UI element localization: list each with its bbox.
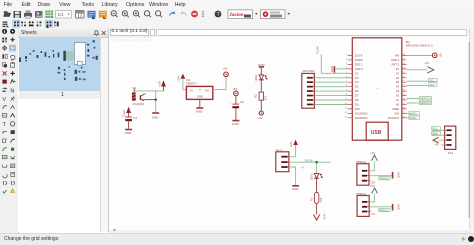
svg-text:A5: A5 [396, 80, 400, 84]
LED1 [314, 174, 319, 179]
svg-text:GND: GND [152, 116, 160, 120]
svg-text:1: 1 [346, 54, 348, 56]
faint marks top-left of canvas [111, 36, 151, 38]
net SDA [407, 85, 429, 87]
PRES2 pin1 to +5V chevron up [369, 161, 374, 171]
toolbar: dots [202, 11, 203, 12]
svg-text:3V3: 3V3 [394, 111, 399, 115]
PRES1 pin3 label [369, 211, 371, 213]
wire VO to +5V circle [213, 77, 226, 90]
ground GND (C1) [125, 129, 132, 131]
svg-text:OC3Q32: OC3Q32 [132, 102, 144, 106]
junction dot [155, 99, 157, 101]
net SERVO2 [407, 98, 420, 100]
svg-text:D2: D2 [355, 71, 359, 75]
svg-text:D5: D5 [355, 85, 359, 89]
row20: check / warning [3, 190, 7, 193]
wire: emitter to junction [144, 99, 156, 101]
LED2 [259, 75, 264, 80]
svg-text:KEYPAD: KEYPAD [303, 69, 316, 73]
scroll corner dot [113, 229, 116, 232]
svg-text:SCL: SCL [432, 127, 438, 131]
svg-text:+5V: +5V [223, 67, 228, 71]
thumbnail mini schematic [19, 38, 100, 91]
toolbar: ad button 2 [261, 10, 286, 19]
svg-text:D6: D6 [355, 89, 359, 93]
svg-text:3: 3 [346, 63, 348, 65]
ground (GND1 row, rotated) [333, 66, 335, 73]
svg-text:SL 1: SL 1 [276, 148, 282, 152]
PRES1 pin leads [367, 202, 369, 212]
arduino left pin labels [355, 54, 368, 120]
svg-text:GND: GND [197, 95, 203, 99]
keypad block [63, 51, 66, 61]
svg-text:GND: GND [196, 109, 204, 113]
toolbar: print icon [24, 13, 32, 17]
SL2 pin leads [445, 130, 447, 145]
frame right border line [468, 42, 470, 218]
part origin cross [301, 166, 304, 169]
svg-text:D10: D10 [355, 107, 360, 111]
canvas top coordinate bar [109, 28, 474, 38]
row16: label / attribute [2, 155, 7, 158]
toolbar: stop icon [191, 11, 198, 18]
svg-text:FLOW: FLOW [316, 46, 320, 54]
svg-text:AREF: AREF [392, 107, 400, 111]
row8: gateswap / name [3, 88, 7, 92]
keypad pins [307, 77, 313, 105]
svg-text:5V: 5V [396, 67, 399, 71]
status bar [0, 233, 474, 245]
toolbar: help [215, 11, 222, 18]
menu bar [0, 0, 474, 11]
capacitor C2 [232, 103, 239, 105]
resistor R1 [314, 193, 318, 204]
capacitor C1 [125, 116, 132, 118]
row11: invoke / wire [2, 113, 6, 117]
svg-text:D3: D3 [355, 76, 359, 80]
sheets header pin + close icons [93, 30, 107, 37]
svg-text:PRES1: PRES1 [380, 208, 389, 212]
row10: miter / split [3, 106, 7, 109]
toolbar: sheet combo [56, 11, 72, 19]
toolbar: zoom fit [111, 11, 162, 18]
svg-text:+5V: +5V [424, 61, 429, 65]
svg-text:2: 2 [346, 58, 348, 60]
svg-text:A0: A0 [396, 103, 400, 107]
svg-text:D1/TX: D1/TX [355, 54, 363, 58]
svg-text:15: 15 [345, 116, 348, 118]
svg-text:10k: 10k [319, 197, 323, 202]
supply +12V arrow (top of net) [161, 80, 166, 86]
svg-text:SDA: SDA [429, 83, 435, 87]
svg-text:VI: VI [190, 89, 193, 93]
svg-text:SERVO2: SERVO2 [420, 97, 431, 101]
wire: main +12V net horizontal [134, 90, 163, 92]
row3: move / group(selected) [2, 46, 7, 51]
svg-text:RST 2: RST 2 [392, 62, 400, 66]
svg-text:+5V: +5V [232, 87, 237, 91]
supply +12V arrow (SL1) [293, 140, 298, 145]
svg-text:A2: A2 [396, 94, 400, 98]
svg-text:D9: D9 [355, 103, 359, 107]
PRES1 pin1 to +5V chevron up [369, 194, 374, 202]
svg-text:A6: A6 [396, 76, 400, 80]
arduino pin numbers (outside stubs) [345, 54, 348, 118]
supply +5V circle (right of arduino) [432, 53, 437, 58]
svg-text:+5V: +5V [257, 116, 262, 120]
arduino white box [74, 43, 85, 65]
net SERVO1 [407, 102, 420, 104]
sheets panel [18, 28, 110, 232]
row14: polygon / bus [3, 139, 7, 142]
svg-text:SCL: SCL [429, 78, 435, 82]
supply circle +5V (bottom of LED2 column) [259, 111, 263, 115]
canvas bottom scrollbar strip [109, 230, 474, 234]
wire VIN to +5V circle [407, 55, 433, 57]
SL1 pin leads [288, 157, 289, 167]
bottom clusters [58, 67, 60, 70]
toolbar: blue schematic icon [88, 11, 96, 18]
ground rotated (PRES2) [392, 172, 394, 179]
SL1 pin3 wire to GND [289, 167, 296, 185]
row18: errors / freeze [3, 174, 7, 178]
toolbar: table icon [76, 11, 85, 19]
arduino left pin stubs [348, 56, 353, 118]
sheet label row [19, 91, 100, 100]
supply arrow down (R1 bottom) [314, 215, 320, 221]
SL2 pin4 wire [441, 144, 445, 146]
svg-text:A3: A3 [396, 89, 400, 93]
arduino right pin labels [388, 54, 400, 120]
toolbar: open icon [4, 12, 11, 17]
net stubs bottom right of arduino [407, 112, 410, 114]
ground GND (C2) [232, 120, 239, 122]
fuse S1 pin top [133, 89, 135, 93]
svg-text:+5V: +5V [439, 53, 442, 58]
fuse S1 body [132, 93, 136, 101]
row5: copy / paste [2, 63, 5, 66]
toolbar: undo [170, 12, 175, 16]
svg-text:13: 13 [345, 107, 348, 109]
supply chevron left (SL2) [439, 139, 445, 141]
net PRES1 wire [369, 206, 392, 208]
row13: arc / rect [3, 131, 7, 133]
SL2 [96, 56, 98, 60]
svg-text:SDA: SDA [432, 132, 438, 136]
svg-text:LED2: LED2 [254, 74, 258, 81]
svg-text:SERVO1: SERVO1 [420, 101, 431, 105]
row2: display / mark [2, 38, 7, 43]
svg-text:+5V: +5V [434, 144, 439, 147]
wire to regulator VI [183, 89, 187, 91]
toolbar: orange board icon [99, 11, 107, 18]
svg-text:A4: A4 [396, 85, 400, 89]
right of arduino specks [87, 44, 89, 46]
toolbar row 2 [0, 20, 474, 30]
svg-text:R1: R1 [310, 197, 314, 201]
ground rotated (PRES1) [392, 204, 394, 211]
svg-text:LED1: LED1 [309, 173, 313, 180]
svg-text:D11/MOSI: D11/MOSI [355, 111, 368, 115]
svg-text:C1: C1 [133, 116, 137, 120]
svg-text:GND: GND [232, 122, 240, 126]
row15: net / junction [3, 148, 7, 151]
row7: replace / pinswap [2, 80, 6, 84]
svg-text:SL2: SL2 [448, 151, 454, 155]
svg-text:D13/SCK: D13/SCK [388, 116, 399, 120]
arduino right pin stubs [402, 56, 407, 118]
svg-text:GND 2: GND 2 [391, 58, 400, 62]
panel scrollbar arrows [100, 224, 107, 232]
keypad wires to arduino [314, 78, 347, 105]
svg-text:MISO: MISO [410, 116, 417, 120]
row6: delete / add [3, 71, 7, 75]
SL1 pin1 wire to +12V [289, 145, 296, 157]
toolbar: ad button 1 [228, 10, 253, 19]
net FLOW wire [289, 161, 331, 163]
canvas right scrollbar [469, 28, 474, 229]
svg-text:+12V: +12V [157, 81, 161, 87]
wire 5V row to supply arrow [407, 69, 428, 71]
row19: braces pair [3, 181, 6, 185]
panel scrollbar [100, 38, 108, 232]
row4: mirror / rotate [2, 54, 4, 58]
svg-text:7805TV: 7805TV [186, 82, 197, 86]
svg-text:D8: D8 [355, 98, 359, 102]
net PRES2 wire [369, 175, 392, 177]
regulator GND [199, 99, 201, 107]
svg-text:+5V: +5V [371, 213, 376, 216]
supply +12V arrow (regulator input) [181, 74, 186, 79]
svg-text:GND: GND [125, 131, 133, 135]
junction (FLOW) [316, 161, 318, 163]
left toolbar icons [0, 28, 18, 233]
svg-text:GND 1: GND 1 [355, 67, 364, 71]
svg-text:FLOW: FLOW [305, 158, 313, 162]
ground GND (SL1) [292, 185, 299, 187]
USB box [366, 122, 388, 140]
svg-text:VO: VO [205, 89, 210, 93]
row17: dimension / erc [3, 165, 7, 167]
svg-text:PRES2: PRES2 [380, 177, 389, 181]
svg-text:GND: GND [397, 172, 401, 178]
toolbar: save icon [14, 11, 22, 18]
toolbar: redo (disabled) [182, 12, 187, 16]
svg-text:GND: GND [330, 66, 334, 72]
toolbar icons svg [0, 0, 474, 28]
svg-text:RST 1: RST 1 [355, 62, 363, 66]
toolbar2: layer settings icon [3, 22, 8, 28]
toolbar: export icon [35, 11, 43, 18]
SL1 + pres [75, 70, 78, 74]
svg-text:S1: S1 [133, 86, 137, 90]
keypad pin leads [313, 78, 315, 105]
PRES2 pin leads [367, 171, 369, 181]
PRES2 pin3 label [369, 180, 371, 182]
wire: vertical net to GND [155, 91, 157, 112]
svg-text:USB: USB [371, 130, 382, 136]
SL2 wires with net labels [432, 129, 445, 131]
resistor R2 [259, 92, 263, 100]
net SCL [407, 80, 429, 82]
svg-text:A7: A7 [396, 71, 400, 75]
svg-text:14: 14 [345, 112, 348, 114]
svg-text:C2: C2 [240, 100, 244, 104]
svg-text:GND: GND [292, 187, 300, 191]
svg-text:+12V: +12V [176, 76, 180, 82]
status right icons [461, 237, 466, 242]
svg-text:GND: GND [397, 204, 401, 210]
toolbar: grid icon green [46, 11, 54, 19]
canvas [109, 37, 474, 230]
svg-text:ARDUINO-NANO-3.0: ARDUINO-NANO-3.0 [406, 44, 433, 48]
left command toolbar [0, 28, 19, 233]
svg-text:A1: A1 [396, 98, 400, 102]
svg-text:+: + [229, 101, 231, 105]
row1: info / show [2, 29, 7, 34]
svg-text:+12V: +12V [322, 214, 326, 220]
svg-text:470: 470 [264, 95, 268, 100]
svg-text:D12/MISO: D12/MISO [355, 116, 368, 120]
svg-text:D0/RX: D0/RX [355, 58, 363, 62]
svg-text:T1: T1 [144, 93, 147, 96]
transistor Q1 [139, 95, 141, 100]
svg-text:D4: D4 [355, 80, 359, 84]
svg-text:D7: D7 [355, 94, 359, 98]
ground GND (near junction) [152, 112, 159, 114]
svg-text:MOSI: MOSI [410, 112, 417, 116]
svg-text:+12V: +12V [289, 141, 293, 147]
sheet thumbnail blue area [19, 38, 100, 91]
svg-text:R2: R2 [253, 94, 257, 98]
connector SL2 (right edge) [445, 126, 456, 149]
toolbar2: grid style buttons [13, 20, 59, 28]
supply +12V arrow (C1 branch) [126, 107, 131, 113]
svg-text:VIN: VIN [395, 54, 400, 58]
toolbar row 1 [0, 10, 474, 21]
